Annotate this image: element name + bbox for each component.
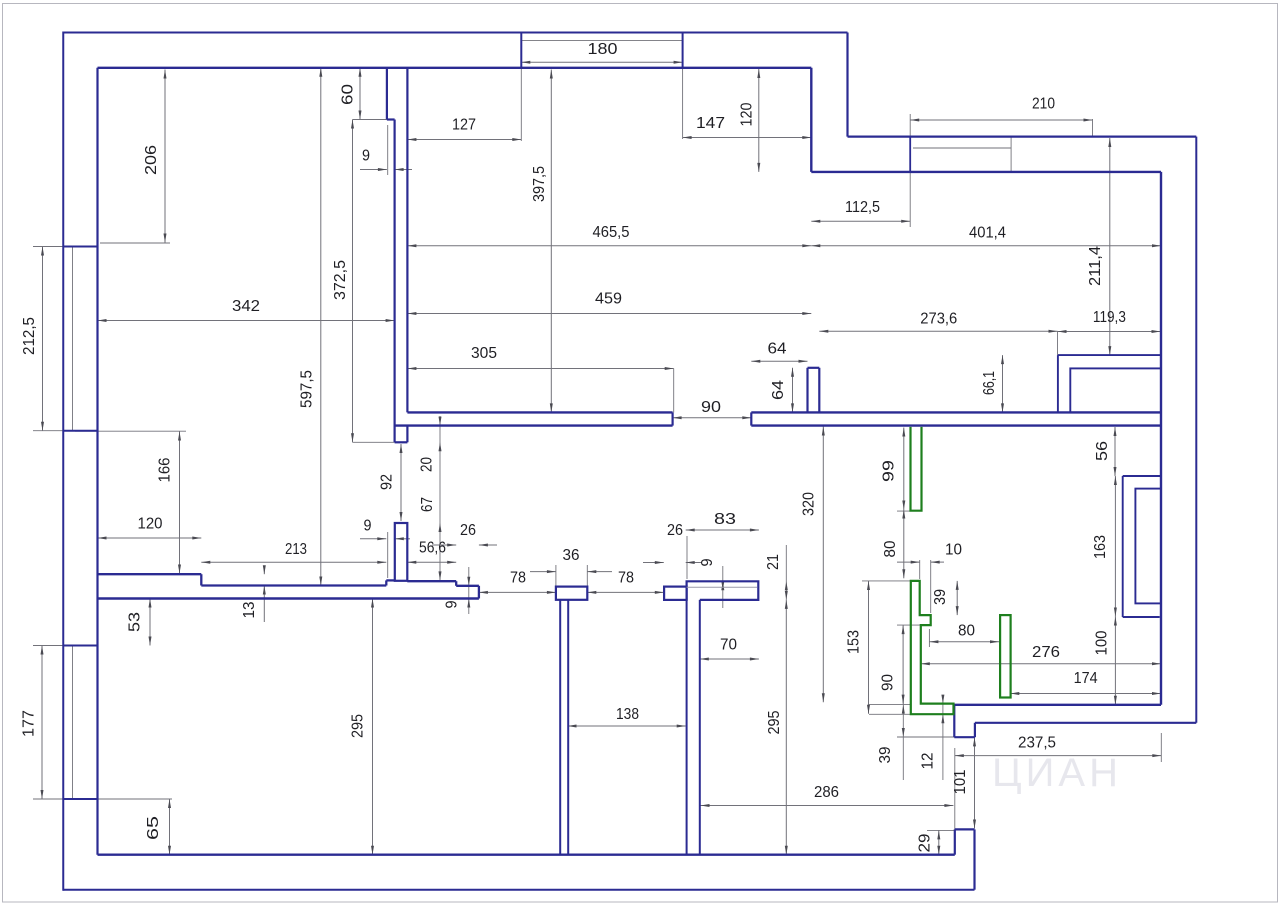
dimension 342 (342) <box>98 320 395 322</box>
dimension 66,1 (66,1) <box>1002 355 1004 412</box>
svg-text:92: 92 <box>379 474 396 490</box>
balcony line v <box>1057 355 1059 412</box>
dimension 26 (tab) <box>643 562 664 564</box>
svg-text:127: 127 <box>452 117 476 134</box>
outer wall bottom-right v2 <box>953 705 955 737</box>
dimension 99 (99) <box>903 428 905 510</box>
dimension 100 (100) <box>1114 617 1116 705</box>
dimension 78 (door 78 a) <box>479 591 556 593</box>
closet bottom h <box>1123 616 1160 618</box>
dimension 21 (bar) <box>785 581 788 590</box>
svg-text:ЦИАН: ЦИАН <box>992 751 1122 795</box>
dimension 39 (foot to wall) <box>902 705 905 714</box>
wall x=811 v <box>810 68 812 172</box>
dimension 180 (niche width) <box>521 61 682 63</box>
svg-text:174: 174 <box>1074 670 1098 687</box>
dimension 56 (56 right) <box>1114 427 1116 476</box>
svg-text:320: 320 <box>801 492 818 516</box>
hall wall y=581 h <box>407 580 456 582</box>
svg-text:210: 210 <box>1032 96 1055 113</box>
dimension 20 (stub) <box>439 417 442 426</box>
dimension 138 (138) <box>568 725 686 727</box>
niche window glass line (top wall) <box>521 40 682 42</box>
svg-text:295: 295 <box>766 711 783 735</box>
svg-text:56,6: 56,6 <box>419 540 446 557</box>
dimension 80 (80 v) <box>903 510 905 579</box>
svg-text:138: 138 <box>616 706 639 723</box>
window W2 top cap <box>63 645 97 647</box>
inner bottom wall <box>98 854 955 856</box>
window W1 glass line (left wall) <box>72 247 74 431</box>
dimension 13 (wall step) <box>263 566 265 574</box>
svg-text:64: 64 <box>770 380 787 400</box>
outer wall top <box>63 32 847 34</box>
T bar rect <box>687 581 759 600</box>
corridor top wall upper left <box>407 411 672 413</box>
dimension 65 (65) <box>169 799 171 855</box>
svg-text:276: 276 <box>1032 644 1060 661</box>
dimension 120 (top right height) <box>758 69 760 172</box>
hall wall end v <box>478 586 480 599</box>
svg-text:401,4: 401,4 <box>969 225 1006 242</box>
dimension 276 (276) <box>921 663 1161 665</box>
east room wall x=1161 <box>1160 172 1162 705</box>
svg-text:99: 99 <box>881 460 898 482</box>
svg-text:13: 13 <box>241 602 258 619</box>
svg-text:9: 9 <box>699 559 716 567</box>
svg-text:36: 36 <box>563 547 580 564</box>
outer wall top-right h <box>848 136 1197 138</box>
window W1 top cap <box>63 246 97 248</box>
dimension 127 (entry width) <box>407 139 521 141</box>
svg-text:9: 9 <box>444 601 461 609</box>
outer wall bottom-right h2 <box>954 736 975 738</box>
svg-text:60: 60 <box>340 84 357 105</box>
dimension 64 (nook 64 h) <box>751 360 807 362</box>
dimension 53 (53) <box>149 599 151 646</box>
dimension 9 (bar wall) <box>721 581 724 590</box>
stub cap <box>395 441 408 443</box>
dimension 64 (nook 64 v) <box>792 368 794 413</box>
svg-text:9: 9 <box>362 148 370 165</box>
dimension 112,5 (right room a) <box>811 220 910 222</box>
left room south wall a <box>98 573 202 575</box>
dimension 597,5 (597,5) <box>320 68 322 586</box>
svg-text:177: 177 <box>21 710 38 737</box>
dimension 163 (163) <box>1114 476 1116 617</box>
corridor top wall upper right <box>751 411 1161 413</box>
left room south wall b <box>201 584 386 586</box>
extension lines <box>100 242 170 244</box>
svg-text:39: 39 <box>877 747 894 764</box>
outer wall bottom-right v1 <box>974 723 976 737</box>
svg-text:65: 65 <box>145 816 162 840</box>
dimension 286 (286) <box>701 805 954 807</box>
dimension 147 (top right) <box>683 137 812 139</box>
dimension 101 (101) <box>974 737 976 828</box>
corridor wall end cap left <box>671 412 673 425</box>
dimension 9 (wall end) <box>468 567 470 614</box>
dimension 372,5 (372,5) <box>352 120 354 443</box>
inner step h (29) <box>955 828 975 830</box>
closet left v <box>1122 476 1124 617</box>
inner top wall <box>98 67 812 69</box>
svg-text:64: 64 <box>768 341 787 358</box>
dimension 213 (213) <box>201 561 386 563</box>
dimension 70 (70) <box>700 658 759 660</box>
svg-text:211,4: 211,4 <box>1087 246 1104 286</box>
svg-text:295: 295 <box>350 714 367 738</box>
svg-text:206: 206 <box>143 145 160 175</box>
svg-text:9: 9 <box>364 518 372 535</box>
outer wall left <box>62 32 64 891</box>
svg-text:112,5: 112,5 <box>845 199 880 216</box>
window W1 bottom cap <box>63 430 97 432</box>
dimension 80 (80 h) <box>929 641 999 643</box>
dimension 166 (166) <box>179 432 181 574</box>
wall pair B east <box>699 600 701 855</box>
dimension 29 (29) <box>938 830 940 854</box>
window W2 glass line (left wall) <box>72 646 74 799</box>
dimension 39 (39 notch) <box>956 581 958 615</box>
dimension 401,4 (right room width) <box>811 245 1161 247</box>
closet top h <box>1123 475 1162 477</box>
hall wall y=586 h <box>456 585 479 587</box>
step y=580 h <box>386 579 395 581</box>
dimension 9 (left step) <box>360 538 386 540</box>
jog wall v1 <box>386 68 388 120</box>
svg-text:166: 166 <box>157 458 174 483</box>
window W3 jamb <box>909 137 911 172</box>
wall y=172 h <box>811 171 1161 173</box>
svg-text:101: 101 <box>952 770 969 795</box>
dimension 83 (83) <box>686 529 759 531</box>
svg-text:180: 180 <box>588 41 618 58</box>
dimension 295 (295 east) <box>785 600 787 855</box>
inner step v (29) <box>954 829 956 854</box>
svg-text:465,5: 465,5 <box>593 224 630 241</box>
corridor top wall lower left <box>395 424 673 426</box>
dimension 210 (window W3) <box>910 119 1092 121</box>
svg-text:342: 342 <box>232 298 260 315</box>
dimension 459 (459) <box>407 313 811 315</box>
T tab rect <box>664 587 687 600</box>
dimension 12 (green foot) <box>941 695 944 704</box>
window W3 glass lines (top right wall) <box>913 147 1011 149</box>
svg-text:212,5: 212,5 <box>21 317 38 355</box>
dimension 174 (174) <box>1010 693 1161 695</box>
dimension 67 (pier) <box>439 523 442 532</box>
closet inner rect <box>1135 489 1161 604</box>
green cabinet 1 <box>911 427 922 511</box>
svg-text:153: 153 <box>846 630 863 654</box>
dimension 211,4 (right room height) <box>1109 138 1111 355</box>
svg-text:56: 56 <box>1094 441 1111 461</box>
T bar inner line <box>687 586 757 588</box>
balcony door rect <box>1070 368 1161 412</box>
window W2 bottom cap <box>63 798 97 800</box>
svg-text:78: 78 <box>618 570 634 587</box>
svg-text:213: 213 <box>285 541 307 558</box>
svg-text:372,5: 372,5 <box>332 260 349 300</box>
dimension 177 (window W2) <box>41 646 43 800</box>
dimension 9 (wall jog) <box>360 169 387 171</box>
dimension 78 (door 78 b) <box>587 591 664 593</box>
svg-text:70: 70 <box>720 637 737 654</box>
niche jamb left <box>520 33 522 68</box>
svg-text:273,6: 273,6 <box>920 310 957 327</box>
svg-text:83: 83 <box>714 511 736 528</box>
svg-text:120: 120 <box>739 102 756 126</box>
svg-text:67: 67 <box>419 497 436 512</box>
svg-text:26: 26 <box>667 522 683 539</box>
door pier 2 <box>556 587 587 600</box>
outer wall bottom <box>63 889 974 891</box>
dimension 305 (305) <box>407 368 673 370</box>
kitchen south wall <box>954 704 1161 706</box>
svg-text:597,5: 597,5 <box>299 370 316 408</box>
dimension 26 (wall step) <box>432 544 456 546</box>
svg-text:80: 80 <box>958 623 975 640</box>
svg-text:120: 120 <box>138 516 163 533</box>
nook wall left <box>806 368 808 413</box>
svg-text:80: 80 <box>882 540 899 557</box>
svg-text:147: 147 <box>696 115 725 132</box>
corridor top wall lower right <box>751 424 1161 426</box>
door pier 1 <box>395 523 408 581</box>
left room step v <box>200 574 202 585</box>
svg-text:66,1: 66,1 <box>981 371 998 395</box>
big room north wall <box>98 597 479 600</box>
hall wall step v <box>455 581 457 586</box>
outer wall bottom-right v3 <box>973 829 975 889</box>
outer wall bottom-right h1 <box>975 722 1196 724</box>
jog wall h <box>387 118 395 120</box>
svg-text:459: 459 <box>595 291 622 308</box>
wall pair A west <box>559 600 561 855</box>
svg-text:12: 12 <box>920 753 937 770</box>
dimension 119,3 (119,3) <box>1058 331 1161 333</box>
dimension 56,6 (56,6) <box>407 561 456 563</box>
svg-text:78: 78 <box>510 570 526 587</box>
outer wall top-right step v <box>846 33 848 137</box>
dimension 36 (pier) <box>530 571 556 573</box>
dimension 273,6 (273,6) <box>819 330 1057 332</box>
dimension 90 (90 kitchen) <box>902 625 904 704</box>
svg-text:20: 20 <box>419 457 436 472</box>
step x=386 v <box>385 580 387 585</box>
nook wall cap <box>808 367 820 369</box>
svg-text:39: 39 <box>932 589 949 605</box>
svg-text:100: 100 <box>1094 630 1111 655</box>
wall pair B west <box>686 600 688 855</box>
svg-text:90: 90 <box>880 674 897 691</box>
dimension 90 (door 90) <box>673 417 752 419</box>
svg-text:90: 90 <box>701 399 721 416</box>
dimension 212,5 (window W1) <box>42 247 44 431</box>
nook wall right <box>818 368 820 413</box>
svg-text:397,5: 397,5 <box>531 166 548 202</box>
green cabinet 3 <box>1000 615 1011 697</box>
svg-text:163: 163 <box>1092 535 1109 559</box>
outer wall right <box>1195 137 1197 723</box>
corridor wall end cap right <box>750 412 752 425</box>
balcony line h <box>1058 354 1161 356</box>
dimension 92 (door 92) <box>400 444 402 521</box>
dimension 320 (320) <box>822 427 824 703</box>
svg-text:29: 29 <box>917 834 934 853</box>
svg-text:10: 10 <box>945 542 962 559</box>
wall pair A east <box>567 600 569 855</box>
dimension 120 (120 h) <box>98 537 202 539</box>
dimension 465,5 (big room width) <box>407 245 811 247</box>
svg-text:286: 286 <box>814 784 839 801</box>
svg-text:26: 26 <box>460 522 476 539</box>
dimension 10 <box>897 561 920 563</box>
dimension 397,5 (big room height) <box>550 70 552 413</box>
svg-text:305: 305 <box>471 345 497 362</box>
dimension 295 (295 west) <box>372 599 374 855</box>
green counter L <box>911 581 954 714</box>
dimension 206 (left room top) <box>164 70 166 243</box>
svg-text:237,5: 237,5 <box>1018 735 1056 752</box>
svg-text:21: 21 <box>765 554 782 570</box>
west corridor wall b <box>406 68 408 413</box>
dimension 237,5 (237,5) <box>955 755 1162 757</box>
svg-text:53: 53 <box>127 612 144 632</box>
inner left wall <box>96 68 98 855</box>
svg-text:119,3: 119,3 <box>1093 309 1126 326</box>
niche jamb right <box>682 33 684 68</box>
west corridor wall a <box>394 120 396 443</box>
stub right edge <box>406 426 408 443</box>
dimension 153 (153) <box>868 581 870 714</box>
dimension 60 (jog) <box>359 68 361 120</box>
